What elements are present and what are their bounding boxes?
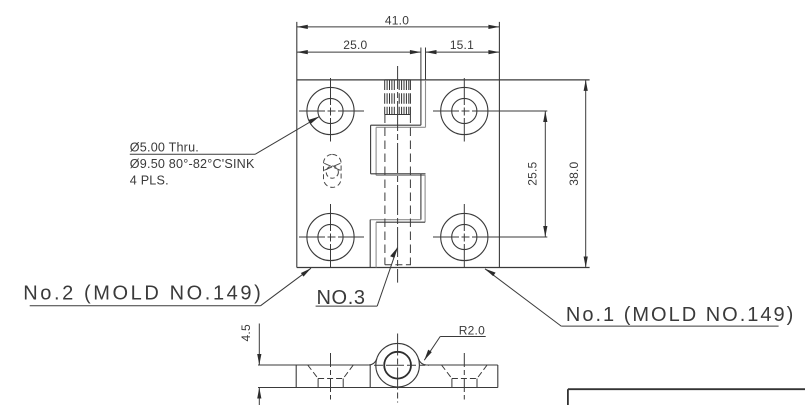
hole top-right inner circle bbox=[452, 98, 477, 123]
side view bottom surface with extension bbox=[258, 387, 498, 389]
hole top-right outer circle bbox=[441, 87, 488, 134]
dimension 4.5 line lower segment bbox=[258, 388, 260, 405]
knuckle edge gray: step 1 horizontal bbox=[376, 126, 425, 128]
knurl hatch lines bbox=[385, 81, 411, 115]
knuckle edge gray: step 2 horizontal bbox=[376, 174, 425, 176]
dimension 15.1 line bbox=[426, 51, 500, 53]
plate top edge with 38.0 extension bbox=[297, 79, 590, 81]
svg-text:Ø5.00 Thru.: Ø5.00 Thru. bbox=[130, 141, 199, 155]
knuckle edge dark: left vertical lower bbox=[369, 220, 371, 268]
label R2.0 underline bbox=[440, 336, 486, 338]
knuckle edge dark: step 2 horizontal bbox=[371, 173, 426, 175]
side view top surface left segment with extension bbox=[258, 364, 369, 366]
svg-text:4.5: 4.5 bbox=[239, 324, 253, 341]
knurled pin head outline bbox=[385, 79, 411, 81]
svg-text:25.0: 25.0 bbox=[343, 38, 367, 52]
hidden pin left edge bbox=[384, 115, 386, 265]
callout leader line bbox=[255, 117, 319, 155]
svg-text:25.5: 25.5 bbox=[526, 161, 540, 185]
svg-text:41.0: 41.0 bbox=[385, 13, 409, 27]
callout leader underline bbox=[130, 153, 255, 155]
label R2.0 leader bbox=[424, 337, 440, 361]
side view countersink right center line bbox=[463, 353, 465, 400]
svg-text:4 PLS.: 4 PLS. bbox=[130, 173, 169, 187]
title block frame corner horizontal bbox=[568, 388, 805, 390]
dimension 4.5 line upper segment bbox=[258, 324, 260, 366]
knuckle edge gray: left vertical upper bbox=[375, 127, 377, 175]
hidden slot cross lines bbox=[324, 163, 340, 170]
callout leader arrowhead bbox=[309, 117, 320, 124]
dimension 38.0 line bbox=[585, 80, 587, 268]
svg-text:No.2 (MOLD NO.149): No.2 (MOLD NO.149) bbox=[23, 283, 263, 305]
plate left edge and 41.0/25.0 extension line bbox=[296, 22, 298, 268]
label No.2 arrowhead bbox=[301, 268, 311, 276]
hole bottom-left outer circle bbox=[307, 213, 354, 260]
label No.2 leader bbox=[261, 268, 311, 306]
hole top-right center lines merged with 25.5 extension bbox=[433, 110, 547, 112]
side view top surface right segment bbox=[427, 364, 498, 366]
hole bottom-left inner circle bbox=[318, 224, 343, 249]
side view countersink right cone bbox=[442, 365, 452, 379]
knuckle edge dark: step 1 horizontal bbox=[371, 124, 421, 126]
hole top-left center lines bbox=[299, 110, 365, 112]
knuckle edge gray: left vertical lower bbox=[375, 222, 377, 267]
dimension 25.5 line bbox=[544, 111, 546, 237]
side view right fillet bbox=[419, 359, 427, 365]
svg-text:No.1 (MOLD NO.149): No.1 (MOLD NO.149) bbox=[566, 304, 795, 326]
hinge pin center line bbox=[397, 66, 399, 283]
svg-text:R2.0: R2.0 bbox=[459, 324, 485, 338]
side view leaf seam line bbox=[369, 365, 371, 388]
label NO.3 underline bbox=[316, 305, 378, 307]
side view pin hole circle bbox=[384, 352, 411, 379]
plate right edge and 41.0/15.1 extension line bbox=[498, 22, 500, 268]
hidden slot stadium bbox=[324, 154, 342, 187]
side view countersink left cone bbox=[308, 365, 318, 379]
side view left edge bbox=[295, 365, 297, 388]
label No.1 underline bbox=[561, 325, 778, 327]
svg-text:15.1: 15.1 bbox=[450, 38, 474, 52]
plate bottom edge with 38.0 extension bbox=[297, 267, 590, 269]
extension lines for 25.0/15.1 at knuckle bbox=[420, 48, 422, 80]
knuckle edge dark: step 3 horizontal bbox=[376, 221, 425, 223]
label NO.3 arrowhead bbox=[390, 248, 397, 258]
hidden slot inner circle bbox=[326, 166, 338, 178]
knuckle edge dark: top right vertical bbox=[420, 80, 422, 125]
hidden pin right edge bbox=[409, 115, 411, 265]
side view left fillet bbox=[369, 359, 377, 365]
knuckle edge dark: right vertical middle bbox=[420, 174, 422, 220]
hole bottom-right center lines merged with 25.5 extension bbox=[433, 236, 547, 238]
svg-text:38.0: 38.0 bbox=[567, 161, 581, 185]
label R2.0 arrowhead bbox=[424, 350, 432, 361]
knuckle edge gray: top right vertical bbox=[425, 80, 427, 127]
hole top-left inner circle bbox=[318, 98, 343, 123]
side view countersink left center line bbox=[330, 353, 332, 400]
hole bottom-right outer circle bbox=[441, 213, 488, 260]
knuckle edge gray: step 3 horizontal bbox=[370, 219, 421, 221]
knuckle edge gray: right vertical middle bbox=[424, 175, 426, 222]
dimension 25.0 line bbox=[297, 51, 421, 53]
label No.1 leader bbox=[485, 269, 561, 326]
side view boss vertical center line bbox=[397, 334, 399, 403]
svg-text:Ø9.50 80°-82°C'SINK: Ø9.50 80°-82°C'SINK bbox=[130, 157, 255, 171]
dimension 41.0 line bbox=[297, 26, 500, 28]
hole bottom-left center lines bbox=[299, 236, 365, 238]
side view boss outer circle bbox=[376, 343, 420, 387]
label No.1 arrowhead bbox=[485, 269, 496, 276]
hole top-left outer circle bbox=[307, 87, 354, 134]
side view right edge bbox=[497, 365, 499, 388]
side view boss horizontal center line bbox=[374, 364, 429, 366]
hidden pin bottom end bbox=[385, 264, 411, 266]
title block frame corner vertical bbox=[567, 389, 569, 405]
svg-text:NO.3: NO.3 bbox=[317, 287, 366, 309]
label No.2 underline bbox=[30, 305, 261, 307]
hole bottom-right inner circle bbox=[452, 224, 477, 249]
label NO.3 leader bbox=[377, 248, 397, 307]
knuckle edge dark: left vertical upper bbox=[370, 125, 372, 174]
